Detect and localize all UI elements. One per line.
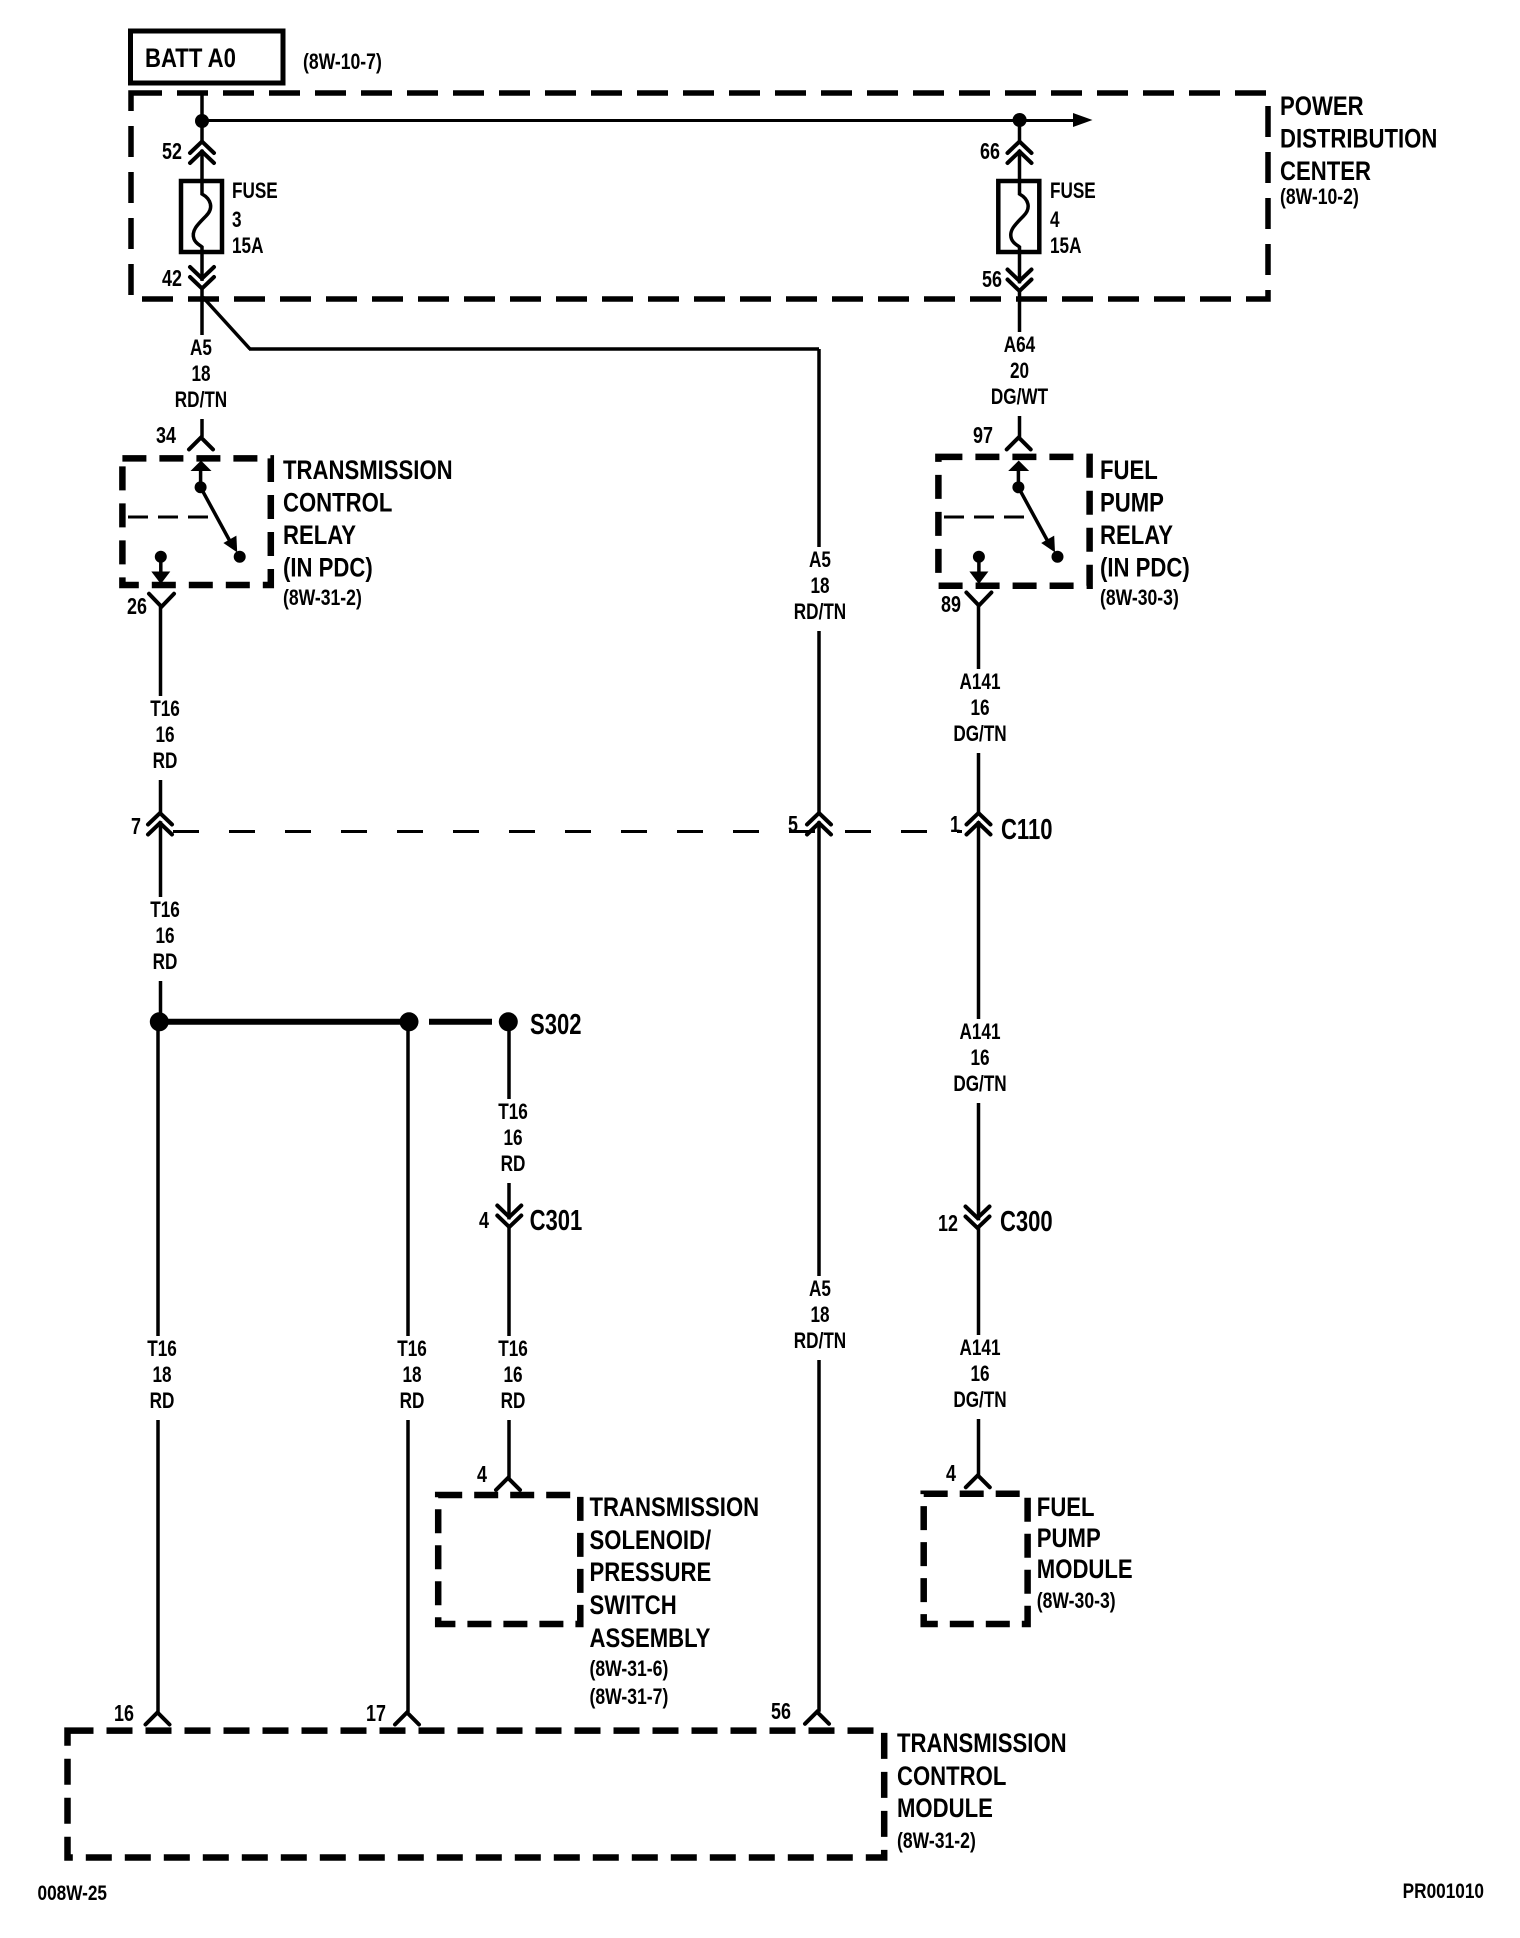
- svg-text:5: 5: [788, 812, 798, 838]
- pin 34 connector: [156, 423, 213, 449]
- svg-text:RD/TN: RD/TN: [794, 600, 846, 625]
- svg-text:42: 42: [162, 266, 182, 292]
- svg-text:CONTROL: CONTROL: [283, 489, 392, 519]
- svg-text:16: 16: [155, 723, 174, 748]
- svg-text:16: 16: [970, 1046, 989, 1071]
- svg-text:(8W-10-2): (8W-10-2): [1280, 185, 1359, 209]
- svg-text:MODULE: MODULE: [897, 1794, 993, 1824]
- connector C300 pin 12: [938, 1207, 989, 1237]
- drawing id PR001010: [1403, 1881, 1484, 1904]
- wire label A141 16 DG/TN upper: [949, 669, 1011, 753]
- relay inner dashed divider: [128, 516, 215, 519]
- svg-text:16: 16: [114, 1701, 134, 1727]
- wire battery bus: [202, 93, 1075, 181]
- svg-text:T16: T16: [498, 1100, 528, 1125]
- svg-text:A5: A5: [190, 336, 212, 361]
- svg-text:(8W-31-6): (8W-31-6): [590, 1657, 669, 1681]
- svg-text:T16: T16: [147, 1337, 177, 1362]
- svg-text:PRESSURE: PRESSURE: [590, 1558, 712, 1588]
- pin 26 connector: [127, 594, 174, 620]
- svg-text:C301: C301: [530, 1205, 583, 1237]
- svg-text:18: 18: [152, 1363, 171, 1388]
- svg-text:RD/TN: RD/TN: [794, 1329, 846, 1354]
- fuse F3 15A: [181, 181, 222, 252]
- wire fuse3 to relay: [200, 252, 204, 437]
- pin 97 connector: [973, 423, 1031, 449]
- svg-text:PR001010: PR001010: [1403, 1881, 1484, 1904]
- svg-text:18: 18: [810, 1303, 829, 1328]
- node S302 dot middle: [400, 1012, 419, 1031]
- svg-text:SOLENOID/: SOLENOID/: [590, 1526, 712, 1556]
- fuse F4 15A: [998, 181, 1039, 252]
- svg-text:(8W-31-2): (8W-31-2): [897, 1829, 976, 1853]
- wire branch diagonal to A5 feed: [203, 297, 819, 349]
- svg-text:RD: RD: [153, 749, 178, 774]
- node junction right: [1013, 113, 1027, 127]
- pin 52 connector: [162, 139, 214, 165]
- power distribution center box: [131, 93, 1268, 299]
- svg-text:RD: RD: [501, 1389, 526, 1414]
- pin 4 solenoid connector: [477, 1462, 520, 1490]
- svg-text:56: 56: [982, 267, 1002, 293]
- svg-text:3: 3: [232, 208, 242, 233]
- relay transmission control box: [122, 458, 270, 585]
- wire label A141 16 DG/TN lower: [949, 1335, 1011, 1419]
- relay output pin arrow bottom: [151, 551, 170, 584]
- label TRANSMISSION CONTROL RELAY: [283, 456, 453, 610]
- svg-text:DG/TN: DG/TN: [953, 1072, 1006, 1097]
- svg-text:008W-25: 008W-25: [38, 1883, 108, 1906]
- pin 1 connector: [950, 812, 990, 838]
- connector C110 dashed line: [173, 830, 962, 833]
- svg-text:T16: T16: [498, 1337, 528, 1362]
- svg-text:BATT A0: BATT A0: [145, 44, 236, 74]
- connector C301 pin 4: [479, 1206, 521, 1234]
- svg-text:SWITCH: SWITCH: [590, 1591, 677, 1621]
- label FUEL PUMP MODULE: [1037, 1493, 1133, 1613]
- svg-text:7: 7: [131, 814, 141, 840]
- svg-text:18: 18: [402, 1363, 421, 1388]
- svg-text:16: 16: [970, 1362, 989, 1387]
- svg-text:T16: T16: [397, 1337, 427, 1362]
- svg-text:T16: T16: [150, 697, 180, 722]
- svg-text:FUEL: FUEL: [1100, 456, 1158, 486]
- svg-text:89: 89: [941, 592, 961, 618]
- wire label T16 16 RD splice branch: [489, 1099, 537, 1183]
- sheet number 008W-25: [38, 1883, 108, 1906]
- svg-text:18: 18: [810, 574, 829, 599]
- svg-text:A64: A64: [1004, 333, 1035, 358]
- fuel pump module box: [924, 1494, 1028, 1624]
- transmission solenoid pressure switch box: [438, 1495, 580, 1624]
- wire splice to solenoid assembly: [507, 1022, 511, 1478]
- wire label T16 16 RD upper: [141, 696, 189, 780]
- svg-text:T16: T16: [150, 898, 180, 923]
- svg-text:DG/TN: DG/TN: [953, 722, 1006, 747]
- svg-text:4: 4: [479, 1208, 489, 1234]
- svg-text:52: 52: [162, 139, 182, 165]
- svg-text:CENTER: CENTER: [1280, 157, 1371, 187]
- wire label T16 18 RD middle: [388, 1336, 436, 1420]
- fuel relay output pin arrow bottom: [969, 551, 988, 584]
- wire label T16 16 RD lower branch: [489, 1336, 537, 1420]
- wire A5 feed middle: [817, 349, 821, 1712]
- pin 7 connector: [131, 813, 172, 840]
- node S302 dot right: [499, 1012, 518, 1031]
- svg-text:PUMP: PUMP: [1037, 1524, 1101, 1554]
- wire label T16 16 RD lower: [141, 897, 189, 981]
- fuel relay inner dashed divider: [944, 516, 1032, 519]
- label C300: [1000, 1206, 1053, 1238]
- wire label A141 16 DG/TN middle: [949, 1019, 1011, 1103]
- label S302: [530, 1009, 581, 1041]
- svg-text:(8W-31-2): (8W-31-2): [283, 586, 362, 610]
- svg-text:RD: RD: [501, 1152, 526, 1177]
- wire label T16 18 RD left: [138, 1336, 186, 1420]
- svg-text:A5: A5: [809, 548, 831, 573]
- wire T16 relay to splice: [159, 607, 163, 1021]
- svg-text:RELAY: RELAY: [283, 521, 356, 551]
- svg-text:DG/WT: DG/WT: [991, 385, 1048, 410]
- svg-text:97: 97: [973, 423, 993, 449]
- svg-text:A5: A5: [809, 1277, 831, 1302]
- svg-text:15A: 15A: [1050, 234, 1081, 259]
- relay coil pin arrow top: [191, 461, 212, 494]
- relay switch arm: [201, 487, 246, 563]
- svg-text:CONTROL: CONTROL: [897, 1762, 1006, 1792]
- svg-text:66: 66: [980, 139, 1000, 165]
- pin 56 TCM connector: [771, 1699, 829, 1725]
- pin 5 connector: [788, 812, 831, 838]
- node junction left: [195, 114, 209, 128]
- svg-text:16: 16: [155, 924, 174, 949]
- svg-text:TRANSMISSION: TRANSMISSION: [590, 1493, 760, 1523]
- node S302 dot left: [150, 1012, 169, 1031]
- svg-text:A141: A141: [959, 670, 1000, 695]
- label FUSE 4 15A: [1050, 179, 1096, 259]
- svg-text:12: 12: [938, 1211, 958, 1237]
- splice S302 bus: [159, 1019, 492, 1025]
- svg-text:RD: RD: [400, 1389, 425, 1414]
- svg-text:RD/TN: RD/TN: [175, 388, 227, 413]
- svg-text:TRANSMISSION: TRANSMISSION: [283, 456, 453, 486]
- svg-text:17: 17: [366, 1701, 386, 1727]
- label FUSE 3 15A: [232, 179, 278, 259]
- svg-text:18: 18: [191, 362, 210, 387]
- wire label A5 18 RD/TN left: [173, 335, 229, 419]
- label TRANSMISSION SOLENOID: [590, 1493, 760, 1709]
- svg-text:C110: C110: [1001, 814, 1052, 846]
- svg-text:S302: S302: [530, 1009, 581, 1041]
- label FUEL PUMP RELAY: [1100, 456, 1190, 610]
- pin 89 connector: [941, 592, 991, 618]
- wire bus to fuse4: [1018, 120, 1022, 181]
- wire splice to TCM pin16: [156, 1022, 160, 1712]
- pin 17 TCM connector: [366, 1701, 419, 1727]
- svg-text:4: 4: [1050, 208, 1060, 233]
- svg-text:(8W-10-7): (8W-10-7): [303, 50, 382, 74]
- pin 66 connector: [980, 139, 1031, 165]
- svg-text:(IN PDC): (IN PDC): [1100, 554, 1190, 584]
- svg-text:RELAY: RELAY: [1100, 521, 1173, 551]
- svg-text:56: 56: [771, 1699, 791, 1725]
- wire A141 relay to fuel pump module: [977, 606, 981, 1476]
- svg-text:RD: RD: [153, 950, 178, 975]
- svg-text:FUSE: FUSE: [232, 179, 278, 204]
- svg-text:RD: RD: [150, 1389, 175, 1414]
- svg-text:DG/TN: DG/TN: [953, 1388, 1006, 1413]
- label POWER DISTRIBUTION CENTER: [1280, 92, 1437, 209]
- svg-text:20: 20: [1010, 359, 1029, 384]
- svg-text:(8W-30-3): (8W-30-3): [1100, 586, 1179, 610]
- wire label A5 18 RD/TN mid upper: [792, 547, 848, 631]
- transmission control module box: [68, 1731, 885, 1858]
- svg-text:DISTRIBUTION: DISTRIBUTION: [1280, 125, 1437, 155]
- fuel relay coil pin arrow top: [1008, 461, 1029, 494]
- svg-text:FUSE: FUSE: [1050, 179, 1096, 204]
- wire label A64 20 DG/WT: [983, 332, 1057, 416]
- label C110: [1001, 814, 1052, 846]
- svg-text:34: 34: [156, 423, 176, 449]
- svg-text:ASSEMBLY: ASSEMBLY: [590, 1624, 711, 1654]
- wire splice to TCM pin17: [406, 1022, 410, 1712]
- wire fuse4 to relay: [1018, 252, 1022, 437]
- relay fuel pump box: [938, 457, 1089, 586]
- pin 4 fuel pump connector: [946, 1461, 990, 1487]
- svg-text:PUMP: PUMP: [1100, 489, 1164, 519]
- pin 56 connector fuse4: [982, 267, 1031, 293]
- reference (8W-10-7): [303, 50, 382, 74]
- svg-text:26: 26: [127, 594, 147, 620]
- arrow bus continuation: [1073, 113, 1093, 127]
- pin 16 TCM connector: [114, 1701, 169, 1727]
- svg-text:1: 1: [950, 812, 960, 838]
- label TRANSMISSION CONTROL MODULE: [897, 1729, 1067, 1853]
- pin 42 connector: [162, 266, 214, 292]
- label C301: [530, 1205, 583, 1237]
- svg-text:POWER: POWER: [1280, 92, 1364, 122]
- battery feed box BATT A0: [131, 31, 284, 83]
- svg-text:A141: A141: [959, 1336, 1000, 1361]
- svg-text:A141: A141: [959, 1020, 1000, 1045]
- svg-text:4: 4: [477, 1462, 487, 1488]
- svg-text:C300: C300: [1000, 1206, 1053, 1238]
- svg-text:16: 16: [503, 1126, 522, 1151]
- svg-text:15A: 15A: [232, 234, 263, 259]
- svg-text:16: 16: [970, 696, 989, 721]
- wire label A5 18 RD/TN mid lower: [792, 1276, 848, 1360]
- svg-text:16: 16: [503, 1363, 522, 1388]
- svg-text:4: 4: [946, 1461, 956, 1487]
- svg-text:(8W-31-7): (8W-31-7): [590, 1685, 669, 1709]
- svg-text:MODULE: MODULE: [1037, 1555, 1133, 1585]
- svg-text:FUEL: FUEL: [1037, 1493, 1095, 1523]
- svg-text:TRANSMISSION: TRANSMISSION: [897, 1729, 1067, 1759]
- fuel relay switch arm: [1018, 487, 1063, 563]
- svg-text:(IN PDC): (IN PDC): [283, 554, 373, 584]
- svg-text:(8W-30-3): (8W-30-3): [1037, 1589, 1116, 1613]
